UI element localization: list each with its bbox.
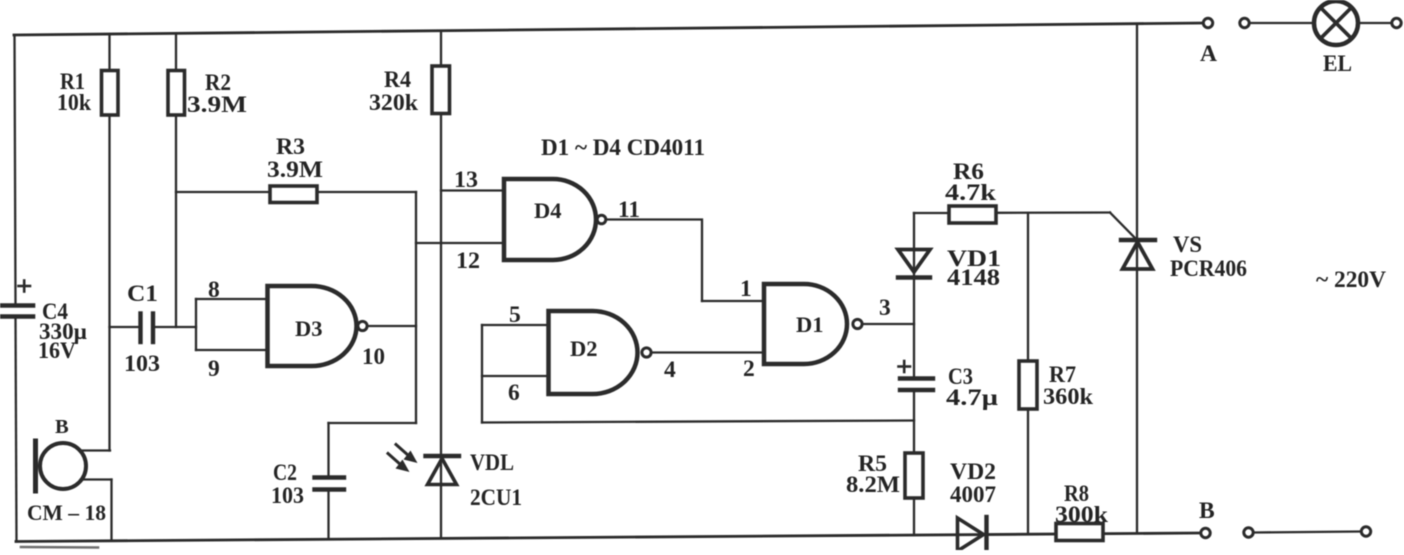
wire pin5 of D2 (482, 324, 549, 326)
svg-text:6: 6 (508, 380, 520, 406)
wire left border (15, 35, 16, 303)
wire R1 branch (108, 34, 110, 451)
svg-text:VS: VS (1173, 232, 1202, 258)
svg-text:103: 103 (124, 351, 160, 377)
resistor R7 (1019, 361, 1037, 409)
svg-text:3.9M: 3.9M (187, 92, 247, 118)
resistor R2 (168, 71, 185, 116)
svg-text:C1: C1 (127, 281, 158, 307)
D4 output bubble (597, 215, 606, 224)
svg-text:3.9M: 3.9M (267, 157, 323, 183)
wire pins 8-9 tie bar (195, 299, 197, 350)
capacitor C4 (0, 306, 33, 317)
svg-text:VDL: VDL (470, 450, 514, 476)
nand gate D4 (504, 179, 596, 260)
svg-text:B: B (1199, 498, 1215, 524)
terminal B (1201, 528, 1210, 537)
svg-text:2CU1: 2CU1 (470, 485, 522, 511)
nand gate D1 (764, 284, 847, 364)
svg-text:3: 3 (879, 295, 891, 321)
D3 output bubble (358, 321, 367, 330)
svg-text:13: 13 (454, 167, 478, 193)
capacitor C1 (110, 314, 197, 343)
capacitor C2 (315, 423, 345, 539)
microphone B CM-18 (36, 441, 112, 491)
wire pin13 of D4 (441, 189, 505, 191)
wire D2 output pin4 to D1 pin2 (652, 351, 766, 353)
svg-text:4.7µ: 4.7µ (946, 385, 999, 411)
wire lamp to right terminal (1359, 22, 1392, 24)
wire R4 branch through VDL (440, 31, 442, 539)
svg-text:CM – 18: CM – 18 (27, 500, 106, 525)
wire D3 output pin10 (368, 325, 417, 327)
wire C2 top link (329, 422, 417, 424)
svg-text:8: 8 (208, 277, 220, 303)
VDL light arrow 1 (396, 445, 418, 464)
lamp EL (1314, 1, 1358, 45)
VDL light arrow 2 (388, 454, 410, 473)
svg-text:B: B (55, 416, 69, 438)
svg-text:12: 12 (456, 248, 480, 274)
terminal bottom mid (1244, 528, 1253, 537)
svg-text:A: A (1200, 41, 1217, 67)
svg-text:103: 103 (271, 483, 304, 509)
wire pin9 of D3 (196, 349, 268, 351)
resistor R5 (905, 453, 923, 498)
svg-text:D3: D3 (295, 316, 323, 341)
svg-text:5: 5 (509, 302, 521, 328)
wire pin12 of D4 (416, 242, 505, 244)
svg-text:16V: 16V (38, 338, 76, 364)
wire R3 horizontal (176, 191, 416, 193)
svg-text:4.7k: 4.7k (945, 180, 997, 206)
svg-text:2: 2 (743, 356, 755, 382)
wire gate slope to SCR (1110, 213, 1137, 241)
svg-text:300k: 300k (1055, 502, 1109, 528)
wire scan artifact bottom-left (21, 546, 98, 549)
svg-text:D1: D1 (796, 312, 824, 337)
svg-text:360k: 360k (1043, 384, 1094, 410)
diode VD2 4007 (958, 517, 987, 552)
C4 plus sign (19, 281, 31, 292)
svg-text:4007: 4007 (950, 482, 996, 508)
D2 output bubble (642, 348, 651, 357)
nand gate D3 (268, 286, 357, 366)
wire R7 branch (1027, 213, 1029, 534)
wire to lamp (1250, 22, 1314, 24)
resistor R3 (270, 186, 317, 203)
wire D4 output pin11 (607, 220, 703, 302)
wire pin6 of D2 (482, 375, 549, 377)
D1 output bubble (853, 319, 862, 328)
svg-text:10: 10 (362, 344, 385, 370)
resistor R8 (1056, 524, 1103, 541)
svg-text:PCR406: PCR406 (1170, 256, 1247, 282)
wire D1 output pin3 (863, 323, 915, 325)
nand gate D2 (549, 311, 638, 394)
svg-text:1: 1 (740, 276, 752, 302)
svg-text:D2: D2 (570, 336, 598, 361)
wire D2 input tie (481, 325, 483, 423)
wire feedback to C3/R5 node (482, 421, 914, 423)
diode VD1 4148 (898, 250, 930, 278)
terminal bottom right (1361, 527, 1370, 536)
thyristor VS PCR406 (1121, 24, 1155, 534)
svg-text:4: 4 (664, 357, 676, 383)
capacitor C3 (900, 379, 933, 536)
svg-text:~ 220V: ~ 220V (1316, 267, 1386, 293)
terminal A (1203, 18, 1212, 27)
svg-text:D1 ~ D4 CD4011: D1 ~ D4 CD4011 (541, 135, 705, 161)
terminal lamp left (1240, 18, 1249, 27)
wire R2 branch (175, 33, 177, 327)
wire pin8 of D3 (196, 298, 268, 300)
photodiode VDL 2CU1 (426, 456, 460, 485)
svg-text:EL: EL (1323, 51, 1352, 77)
wire top supply rail (14, 23, 1203, 35)
svg-text:320k: 320k (369, 90, 419, 116)
svg-text:10k: 10k (57, 90, 92, 116)
svg-text:D4: D4 (534, 198, 562, 223)
wire VD1/C3/R5 vertical (913, 213, 915, 377)
resistor R6 with wires (914, 206, 1110, 223)
wire node vertical R3/pin12/D3out/C2 (415, 192, 417, 423)
resistor R4 (432, 66, 450, 114)
wire pin1 of D1 (702, 300, 765, 302)
wire bottom right (1255, 532, 1361, 533)
terminal top right (1392, 18, 1401, 27)
resistor R1 (102, 71, 119, 116)
svg-text:11: 11 (618, 197, 640, 223)
wire mic to bottom rail (110, 480, 112, 541)
wire bottom rail (16, 533, 1199, 542)
C3 plus sign (899, 361, 911, 372)
svg-text:8.2M: 8.2M (846, 472, 900, 498)
svg-text:9: 9 (208, 356, 220, 382)
wire left border lower (16, 318, 17, 542)
svg-text:4148: 4148 (947, 265, 1000, 291)
